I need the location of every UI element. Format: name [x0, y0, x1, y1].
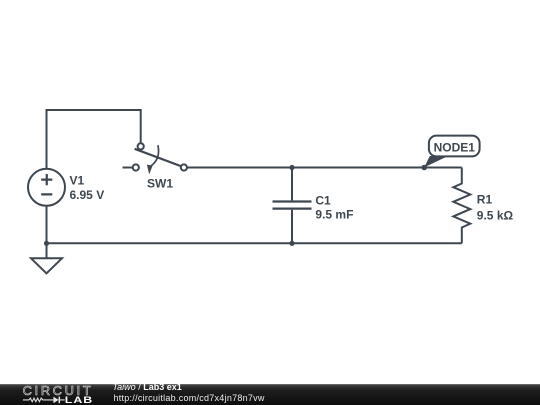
- resistor R1: [453, 168, 470, 244]
- switch SW1: [123, 143, 187, 174]
- footer url: [114, 394, 265, 403]
- wire V1 bottom to ground junction: [46, 206, 48, 244]
- svg-text:NODE1: NODE1: [434, 140, 476, 154]
- svg-text:6.95 V: 6.95 V: [70, 188, 105, 202]
- svg-text:V1: V1: [70, 174, 85, 188]
- svg-text:SW1: SW1: [147, 176, 173, 190]
- junction at C1 top: [289, 165, 294, 170]
- ground: [31, 243, 62, 273]
- label R1 value: [477, 193, 514, 223]
- CircuitLab logo: [22, 384, 102, 405]
- svg-text:9.5 mF: 9.5 mF: [315, 208, 353, 222]
- footer title: [113, 383, 182, 392]
- junction node dot NODE1: [421, 165, 427, 171]
- junction at C1 bottom: [289, 241, 294, 246]
- label C1 value: [315, 194, 353, 222]
- svg-text:9.5 kΩ: 9.5 kΩ: [477, 208, 514, 222]
- wire V1 top to switch: [47, 110, 141, 169]
- footer bar: [0, 384, 540, 405]
- capacitor C1: [273, 168, 312, 244]
- voltage source V1: [28, 169, 65, 206]
- svg-text:C1: C1: [315, 194, 331, 208]
- bottom wire: [47, 242, 462, 244]
- label V1 value: [70, 174, 105, 203]
- svg-text:R1: R1: [477, 193, 493, 207]
- svg-text:LAB: LAB: [65, 396, 93, 405]
- junction at V1 bottom: [44, 241, 49, 246]
- node label NODE1: [424, 136, 479, 168]
- main wire switch to top-right corner: [187, 167, 462, 169]
